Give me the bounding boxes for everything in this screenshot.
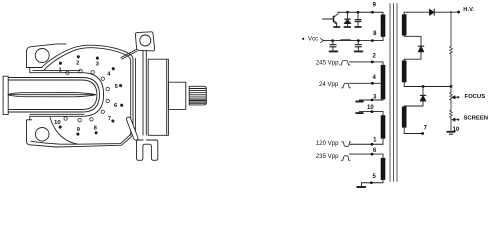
label 10 [367, 105, 374, 111]
120 Vpp label [316, 140, 339, 147]
label SCREEN [464, 115, 489, 121]
node pin 1 [371, 143, 374, 146]
svg-text:5: 5 [115, 84, 119, 90]
ground (C1) [355, 26, 361, 28]
svg-text:6: 6 [373, 148, 377, 154]
svg-text:9: 9 [373, 3, 377, 9]
label 3 [373, 94, 377, 100]
node pin 6 [371, 153, 374, 156]
245 Vpp label [316, 60, 339, 67]
pin 7 terminal dot [421, 132, 424, 135]
label 5 [373, 174, 377, 180]
svg-text:5: 5 [373, 174, 377, 180]
waveform pulse up (24) [341, 83, 350, 88]
Vcc arrow [321, 38, 324, 42]
splined shaft [189, 86, 206, 105]
svg-text:SCREEN: SCREEN [464, 115, 489, 121]
node pin 9 [371, 11, 374, 14]
svg-text:2: 2 [373, 53, 377, 59]
svg-text:245 Vpp: 245 Vpp [316, 60, 339, 67]
label 7 [424, 126, 428, 132]
node pin 10 [371, 110, 374, 113]
label 2 [373, 53, 377, 59]
pin number labels [54, 61, 119, 133]
wire RBar2 bottom to focus chain [404, 86, 450, 88]
mounting post stem [143, 51, 146, 136]
collar [168, 82, 185, 109]
diode D3 [404, 87, 426, 107]
wire pin 3 to ground [360, 99, 384, 101]
svg-text:235 Vpp: 235 Vpp [316, 153, 339, 160]
capacitor C3 [355, 41, 361, 51]
node HV junction [450, 11, 452, 13]
svg-text:24 Vpp: 24 Vpp [319, 81, 339, 88]
node pin 8 [371, 39, 374, 42]
transistor Q1 [323, 12, 339, 25]
Vcc label [302, 36, 318, 43]
mounting plate top-left ear [27, 44, 67, 68]
ground (pin 3) [356, 100, 363, 102]
flyback transformer bell body outline (left mechanical view) [42, 45, 133, 135]
node C1 rail [357, 11, 360, 14]
SCREEN tap arrow [452, 118, 460, 121]
winding pins 10-1 [381, 112, 386, 145]
235 Vpp label [316, 153, 339, 160]
24 Vpp label [319, 81, 339, 88]
ground (screen divider) [447, 132, 455, 134]
node pin 5 [370, 181, 373, 184]
damper diode D1 [344, 12, 351, 26]
ground (pin 10) [356, 112, 363, 114]
wire pin 5 to ground [361, 182, 383, 184]
ground (pin 5) [357, 183, 365, 187]
HV secondary winding 2 [402, 59, 407, 86]
svg-text:4: 4 [107, 72, 111, 78]
release lever stick [126, 117, 138, 140]
HV secondary winding 3 [402, 106, 407, 134]
svg-text:H.V.: H.V. [463, 7, 474, 13]
capacitor C2 [330, 41, 336, 51]
svg-text:10: 10 [54, 120, 60, 126]
chain wire [450, 100, 452, 131]
label 6 [373, 148, 377, 154]
waveform pulse up (245) [340, 61, 351, 65]
label 1 [373, 138, 377, 144]
HV rectifier diode D4 [430, 9, 458, 15]
plate shoulder steps top [30, 68, 104, 95]
label 9 [373, 3, 377, 9]
resistor R1 [450, 47, 453, 55]
plate shoulder steps bottom [30, 95, 104, 120]
HV secondary winding 1 [402, 12, 407, 36]
retrace capacitor C1 [355, 12, 361, 26]
focus divider chain wire [450, 12, 452, 46]
top mounting tab with hole [135, 32, 154, 51]
svg-text:120 Vpp: 120 Vpp [316, 140, 339, 147]
svg-text:3: 3 [96, 62, 100, 68]
svg-text:8: 8 [94, 126, 98, 132]
resistor R2 [450, 93, 453, 118]
inductor L1 [340, 39, 350, 40]
label 4 [373, 75, 377, 81]
strap to tab [121, 49, 137, 59]
svg-text:FOCUS: FOCUS [465, 94, 486, 100]
waveform pulse down (120) [342, 142, 351, 147]
label 10 (divider ground pin) [453, 127, 460, 133]
svg-text:8: 8 [373, 31, 377, 37]
inner circle of terminal holes [64, 69, 110, 122]
transformer core [390, 4, 397, 182]
node pin 2 [371, 61, 374, 64]
svg-text:3: 3 [373, 94, 377, 100]
svg-text:2: 2 [76, 61, 79, 67]
svg-text:7: 7 [108, 116, 111, 122]
node pin 4 [371, 82, 374, 85]
HV terminal dot [457, 11, 460, 14]
FOCUS tap arrow [452, 96, 460, 99]
diode D2 [404, 46, 424, 59]
HV wire [404, 11, 429, 13]
wire RBar1 bottom to D2 [404, 36, 421, 45]
ground (C2) [330, 50, 338, 52]
svg-text:4: 4 [373, 75, 377, 81]
bottom fork bracket [137, 140, 158, 160]
wire pin 4 [350, 82, 382, 84]
ground (D1) [344, 26, 350, 28]
wire pin 1 [350, 143, 383, 145]
ferrite core tube [3, 76, 99, 114]
winding pins 2-4-3 [381, 62, 386, 100]
svg-text:6: 6 [114, 103, 118, 109]
label H.V. [463, 7, 474, 13]
Vcc wire (pin 8) [323, 40, 383, 42]
svg-text:Vcc: Vcc [308, 36, 318, 43]
pin dots ring (bottom view) [59, 55, 124, 135]
node D3 tap [422, 85, 425, 88]
mounting plate bottom-left ear [27, 120, 50, 141]
label 8 [373, 31, 377, 37]
node focus junction [450, 85, 453, 88]
top rail wire (pin 9) [338, 11, 383, 13]
node C3 [357, 39, 360, 42]
right side-view case section [135, 59, 168, 136]
bell bottom outline [27, 117, 134, 147]
svg-text:10: 10 [367, 105, 374, 111]
primary winding pins 9-8 [381, 12, 386, 40]
ground (C3) [355, 50, 363, 52]
wire pin 2 [350, 61, 384, 63]
wire RBar3 bottom to pin 7 [404, 133, 422, 135]
label FOCUS [465, 94, 486, 100]
wire pin 6 [350, 153, 384, 155]
node C2 [331, 39, 334, 42]
svg-text:7: 7 [424, 126, 428, 132]
node pin 3 [371, 99, 374, 102]
chain wire [450, 54, 452, 92]
wire pin 10 to ground [360, 111, 384, 113]
svg-text:1: 1 [373, 138, 377, 144]
waveform pulse up (235) [341, 156, 350, 161]
svg-text:9: 9 [77, 127, 81, 133]
ground (emitter) [334, 25, 340, 27]
node D1 rail [346, 11, 349, 14]
winding pins 6-5 [381, 154, 386, 183]
